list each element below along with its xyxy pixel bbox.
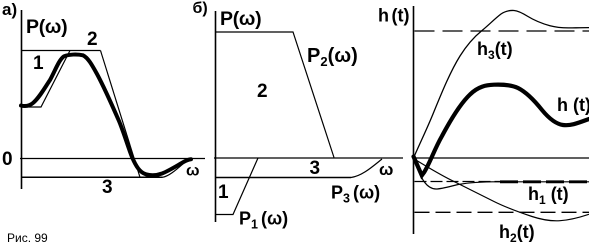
trapezoid 3 right slope, panel a: [163, 160, 189, 178]
svg-text:h1 (t): h1 (t): [528, 184, 569, 207]
svg-text:h2(t): h2(t): [499, 222, 535, 245]
svg-text:h(t): h(t): [378, 6, 409, 26]
zero axis line, panel a: [20, 158, 205, 160]
dashed asymptote h1 bold part: [500, 180, 589, 183]
trapezoid P2 outline, panel b: [216, 32, 335, 158]
svg-text:а): а): [2, 0, 17, 19]
thick curve h(t): [414, 85, 589, 176]
svg-text:3: 3: [310, 158, 321, 179]
upper dashed asymptote line: [415, 30, 589, 32]
dashed asymptote h1 thin part: [415, 181, 501, 183]
zero axis line, panel c: [414, 157, 589, 159]
svg-text:3: 3: [102, 177, 113, 198]
svg-text:h3(t): h3(t): [477, 39, 513, 62]
svg-text:h (t): h (t): [557, 95, 589, 115]
curve h2(t): [414, 159, 589, 221]
trapezoid 3 bottom line, panel a: [22, 176, 163, 178]
svg-text:ω: ω: [379, 160, 393, 179]
svg-text:2: 2: [257, 81, 268, 102]
trapezoid 3 right slope, panel b: [351, 159, 382, 178]
svg-text:Рис. 99: Рис. 99: [7, 231, 48, 245]
trapezoid 1 outline, panel b: [215, 158, 258, 215]
svg-text:P2(ω): P2(ω): [307, 45, 358, 69]
svg-text:б): б): [193, 0, 208, 17]
svg-text:P(ω): P(ω): [220, 8, 261, 30]
axis P(omega) vertical, panel a: [21, 10, 23, 189]
svg-text:1: 1: [218, 182, 229, 203]
zero axis line, panel b: [214, 157, 403, 159]
svg-text:1: 1: [33, 53, 44, 74]
trapezoid sum right slope, panel a: [101, 51, 141, 178]
thick curve P(omega), panel a: [21, 55, 191, 176]
axis P(omega) vertical, panel b: [215, 11, 217, 222]
svg-text:P3(ω): P3(ω): [331, 183, 380, 206]
trapezoid 2 top line, panel a: [22, 50, 101, 52]
svg-text:P1(ω): P1(ω): [239, 209, 288, 232]
svg-text:2: 2: [87, 29, 98, 50]
svg-text:ω: ω: [186, 163, 200, 180]
curve h3(t): [414, 10, 589, 158]
trapezoid sum left rise, panel a: [22, 51, 71, 108]
lower dashed asymptote line: [415, 211, 589, 213]
svg-text:0: 0: [2, 149, 13, 170]
svg-text:P(ω): P(ω): [26, 16, 67, 38]
curve h1(t): [414, 158, 589, 189]
trapezoid 3 bottom line, panel b: [215, 177, 351, 179]
axis h(t) vertical, panel c: [413, 6, 415, 234]
